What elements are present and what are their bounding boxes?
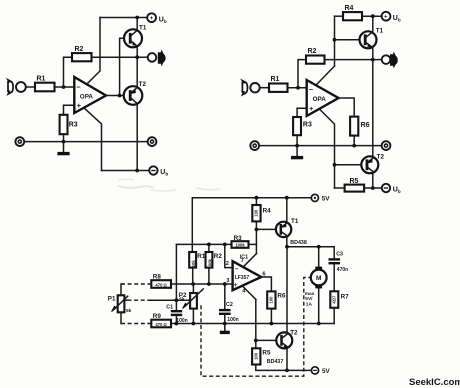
output terminal — [382, 55, 391, 64]
wire C3 to R7 — [333, 264, 335, 291]
wire T2 collector down to bottom rail — [136, 104, 138, 171]
wire output line — [325, 59, 382, 61]
transistor T2 — [124, 86, 143, 105]
node top rail — [371, 14, 375, 18]
resistor R1 — [35, 83, 55, 92]
wire T1 emitter — [286, 237, 288, 247]
svg-text:T2: T2 — [139, 81, 147, 88]
svg-text:T1: T1 — [139, 25, 147, 32]
resistor R1 — [269, 84, 288, 92]
svg-text:T2: T2 — [290, 330, 298, 337]
node T1 base — [333, 38, 337, 42]
terminal -5V — [311, 367, 318, 374]
wire T2 emitter long vertical up — [286, 247, 288, 332]
wire T1 base — [256, 228, 276, 230]
wire R5 to bottom rail — [256, 365, 312, 371]
motor M — [315, 267, 322, 270]
terminal +5V — [311, 194, 318, 201]
svg-text:M: M — [316, 275, 321, 282]
wire P1 top corner — [120, 284, 122, 295]
node inverting input — [296, 86, 300, 90]
wire emitter output line — [287, 246, 334, 248]
svg-text:+: + — [234, 282, 238, 289]
svg-text:470n: 470n — [337, 267, 348, 273]
svg-text:R3: R3 — [69, 121, 78, 128]
svg-text:R9: R9 — [153, 313, 162, 320]
ground symbol — [63, 142, 65, 152]
wire opamp output — [106, 95, 124, 97]
svg-text:R8: R8 — [153, 274, 162, 281]
wire T1 collector — [372, 16, 374, 32]
wire C2 bottom stub to ground symbol — [224, 315, 226, 331]
svg-text:R7: R7 — [341, 293, 350, 300]
wire C2 top stub — [224, 284, 226, 309]
wire T2 base — [256, 339, 277, 341]
wire P2 top stub — [192, 284, 194, 293]
node output — [371, 58, 375, 62]
resistor R1 vertical — [189, 252, 196, 268]
resistor R8 — [151, 280, 171, 288]
svg-text:R5: R5 — [350, 178, 359, 185]
svg-text:470 Ω: 470 Ω — [155, 322, 166, 327]
transistor T1 BD438 — [276, 222, 291, 237]
wire top rail — [100, 17, 147, 19]
potentiometer P1 — [118, 295, 125, 312]
bottom rail — [102, 170, 150, 172]
node P2 top / R1 bottom — [191, 282, 195, 286]
wire R4 stub top — [255, 198, 257, 205]
wire pin2 stub — [225, 244, 233, 267]
svg-text:+: + — [384, 14, 388, 20]
resistor R2 — [72, 53, 92, 61]
transistor T1 — [360, 31, 377, 48]
node motor bottom — [317, 322, 321, 326]
terminal ground right — [382, 141, 391, 150]
svg-text:OPA: OPA — [80, 93, 94, 100]
svg-text:C1: C1 — [166, 304, 173, 310]
terminal -Ub — [382, 184, 390, 192]
node ground — [295, 144, 299, 148]
wire R2 bottom stub — [208, 268, 210, 284]
svg-text:+: + — [150, 16, 154, 22]
svg-text:2: 2 — [226, 261, 229, 267]
wire C3 branch vertical — [333, 247, 335, 259]
node bottom rail — [371, 186, 375, 190]
resistor R4 vertical — [252, 205, 260, 221]
wire bottom rail — [335, 187, 345, 189]
input terminal — [250, 83, 259, 92]
resistor R6 — [350, 117, 358, 136]
node top rail — [135, 16, 139, 20]
svg-text:R3: R3 — [303, 121, 312, 128]
svg-text:100: 100 — [268, 296, 273, 304]
wire non-inverting input — [64, 105, 75, 115]
wire R1 to op-amp — [288, 87, 307, 89]
output terminal — [148, 53, 157, 62]
wire node up to R2 — [298, 60, 306, 88]
wire T1 emitter and long vertical to T2 — [372, 48, 374, 157]
resistor R5 — [345, 185, 365, 192]
op-amp OPA left — [74, 77, 106, 113]
node emitters — [285, 245, 289, 249]
wire V+ supply slant — [316, 66, 335, 85]
svg-text:R1: R1 — [37, 75, 46, 82]
svg-text:100n: 100n — [227, 317, 238, 323]
wire non-inverting input — [297, 108, 307, 117]
svg-text:P1: P1 — [108, 295, 116, 302]
svg-text:100k: 100k — [207, 258, 212, 268]
top rail wire — [335, 15, 344, 17]
ground rail — [259, 145, 381, 147]
svg-text:T2: T2 — [377, 153, 385, 160]
resistor R7 vertical — [330, 291, 338, 308]
wire R7 to ground rail — [333, 308, 335, 324]
wire to R1 — [260, 87, 269, 89]
wire base drive vertical — [334, 16, 336, 66]
transistor T1 — [124, 29, 142, 47]
svg-text:1A: 1A — [306, 301, 313, 307]
node rail T1 — [285, 196, 289, 200]
svg-text:IC1: IC1 — [240, 255, 248, 261]
wire R6 to ground rail — [353, 136, 355, 146]
wire T1 base — [335, 39, 360, 41]
resistor R4 — [343, 12, 362, 20]
wire pin7 slant — [243, 254, 256, 267]
dashed mechanical coupling motor to P2 — [201, 277, 311, 376]
svg-text:−: − — [76, 82, 81, 91]
terminal ground left — [250, 141, 259, 150]
wire top rail +5V — [192, 198, 311, 252]
resistor R3 — [60, 115, 68, 134]
wire motor top stub — [318, 247, 320, 267]
op-amp OPA right — [307, 80, 339, 116]
svg-text:R6: R6 — [361, 122, 370, 129]
wire dashed P1 bottom — [121, 323, 151, 325]
svg-text:+: + — [309, 104, 314, 113]
resistor R6 vertical — [267, 291, 275, 308]
resistor R2 — [306, 56, 325, 64]
node T1 base — [255, 228, 259, 232]
audio output icon — [390, 52, 397, 67]
wire pin3 line — [171, 283, 233, 285]
svg-text:OPA: OPA — [313, 96, 327, 103]
node bottom rail — [135, 169, 139, 173]
svg-text:R2: R2 — [214, 253, 223, 260]
wire T1 collector — [136, 18, 138, 30]
audio output icon — [158, 50, 165, 65]
wire T2 collector — [286, 349, 288, 371]
wire input to R1 — [26, 86, 35, 88]
node rail R4 — [255, 196, 259, 200]
svg-text:100: 100 — [254, 209, 259, 217]
wire T1 base vertical to output node of opamp — [120, 38, 124, 95]
potentiometer P2 — [190, 293, 197, 309]
svg-text:R5: R5 — [262, 349, 271, 356]
svg-text:10k: 10k — [191, 260, 196, 268]
resistor R5 vertical — [252, 348, 260, 364]
node C2 top — [223, 282, 227, 286]
node P2 ground — [192, 322, 196, 326]
node output to bases — [118, 94, 122, 98]
transistor T2 — [361, 156, 378, 173]
svg-text:T1: T1 — [376, 28, 384, 35]
LEFT-CIRCUIT — [8, 13, 168, 176]
ground symbol below C2 — [220, 331, 230, 334]
svg-text:−: − — [235, 266, 239, 273]
resistor R3 — [293, 117, 301, 135]
wire V- supply slant — [320, 110, 335, 188]
svg-text:470 Ω: 470 Ω — [155, 282, 166, 287]
svg-text:C3: C3 — [336, 251, 343, 257]
op-amp IC1 LF357 — [233, 261, 262, 290]
svg-text:BD438: BD438 — [290, 240, 307, 246]
svg-text:R4: R4 — [345, 5, 354, 12]
ground symbol — [296, 146, 298, 156]
wire pin6 output — [261, 277, 271, 291]
wire R3 to ground rail — [63, 134, 65, 141]
BOTTOM-CIRCUIT — [108, 194, 349, 376]
wire dashed P1 top — [121, 283, 151, 285]
node R2 bottom — [207, 282, 211, 286]
scan smudges (decorative) — [118, 179, 220, 191]
wire T2 collector down — [372, 173, 374, 188]
svg-text:C2: C2 — [226, 302, 233, 308]
svg-text:5V: 5V — [322, 368, 331, 375]
svg-text:BD437: BD437 — [267, 359, 284, 365]
terminal -Ub — [149, 166, 157, 174]
node pin2 — [223, 243, 227, 247]
svg-text:SeekIC.com: SeekIC.com — [409, 377, 460, 388]
wire pin4 slant — [242, 286, 256, 300]
node output — [135, 55, 139, 59]
node T2 collector bottom — [285, 369, 289, 373]
wire R4 to terminal — [362, 15, 382, 17]
svg-text:100k: 100k — [235, 243, 245, 248]
wire T1 collector — [286, 198, 288, 223]
wire T2 base — [335, 164, 362, 166]
wire P1 wiper — [124, 299, 127, 301]
node motor top — [317, 245, 321, 249]
wire R1 to op-amp — [55, 86, 75, 88]
node wiper C1 — [175, 298, 179, 302]
svg-text:5k: 5k — [179, 296, 185, 302]
wire vertical R3line to wiper node — [175, 244, 177, 300]
svg-text:R2: R2 — [75, 46, 84, 53]
wire pin4 vertical down — [255, 299, 257, 348]
svg-text:R6: R6 — [277, 292, 286, 299]
node R6 ground — [270, 322, 274, 326]
node T2 base — [333, 163, 337, 167]
wire P1 bottom corner — [120, 312, 122, 323]
terminal +Ub — [147, 13, 156, 22]
svg-text:R2: R2 — [308, 48, 317, 55]
wire C1 top stub — [175, 300, 177, 310]
node C2 ground rail — [223, 322, 227, 326]
audio input icon — [242, 81, 247, 95]
wire R3 line (inverting node) — [176, 243, 231, 245]
wire T2 emitter up to output node — [136, 57, 138, 87]
svg-text:−: − — [309, 85, 314, 94]
svg-text:+: + — [77, 101, 82, 110]
wire R3 right to V+ vertical — [249, 243, 257, 245]
transistor T2 BD437 — [276, 332, 292, 348]
wire motor bottom stub — [318, 288, 320, 323]
node T2 base — [254, 339, 258, 343]
svg-text:5V/: 5V/ — [305, 296, 313, 302]
wire R6 bottom stub — [270, 309, 272, 324]
terminal ground right — [148, 137, 157, 146]
wire R2 top stub — [208, 244, 210, 252]
svg-text:T1: T1 — [291, 218, 299, 225]
node R6 ground — [352, 144, 356, 148]
resistor R3 — [232, 241, 249, 248]
ground rail — [171, 323, 334, 325]
terminal ground left — [15, 137, 24, 146]
node R2 top — [207, 243, 211, 247]
wire V- supply pin — [85, 109, 102, 171]
svg-text:R4: R4 — [263, 207, 272, 214]
wire node up to R2 — [64, 57, 73, 87]
wire P2 bottom stub — [192, 309, 194, 324]
wire R4 to base node — [255, 221, 257, 253]
svg-text:LF357: LF357 — [235, 275, 250, 281]
resistor R9 — [151, 320, 171, 328]
RIGHT-CIRCUIT — [242, 5, 400, 194]
node inverting input — [62, 85, 66, 89]
terminal +Ub — [382, 12, 391, 21]
svg-text:5k: 5k — [126, 308, 132, 314]
wire R1 bottom stub — [192, 268, 194, 284]
wire T1 emitter — [136, 47, 138, 57]
audio input icon — [8, 80, 13, 94]
capacitor C2 — [219, 309, 231, 311]
capacitor C1 — [171, 310, 182, 312]
input terminal — [16, 82, 26, 92]
capacitor C3 — [329, 258, 341, 260]
wire R3 to ground — [296, 135, 298, 145]
wire output line — [92, 56, 148, 58]
svg-text:5V: 5V — [322, 196, 331, 203]
wire V+ supply pin to top rail — [87, 18, 100, 85]
svg-text:R1: R1 — [271, 76, 280, 83]
wire opamp output to R6 — [339, 98, 355, 117]
svg-text:R3: R3 — [234, 235, 243, 242]
node ground — [62, 140, 66, 144]
svg-text:4Ω7: 4Ω7 — [331, 295, 336, 304]
wire C1 bottom stub — [175, 316, 177, 324]
resistor R2 vertical — [206, 252, 213, 268]
svg-text:100: 100 — [253, 352, 258, 360]
node C1 ground — [175, 322, 179, 326]
ground rail — [24, 141, 147, 143]
